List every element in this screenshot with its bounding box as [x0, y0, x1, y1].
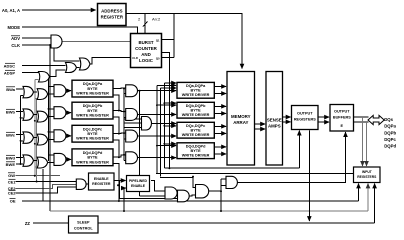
svg-text:A0, A1, A: A0, A1, A	[2, 8, 20, 13]
svg-text:DQc,DQPc: DQc,DQPc	[186, 124, 205, 128]
svg-text:ARRAY: ARRAY	[233, 120, 248, 125]
svg-text:ENABLE: ENABLE	[94, 177, 109, 181]
svg-text:CLR: CLR	[132, 56, 138, 60]
svg-text:OUTPUT: OUTPUT	[297, 112, 313, 116]
svg-text:WRITE REGISTER: WRITE REGISTER	[76, 160, 109, 164]
svg-text:BYTE: BYTE	[191, 149, 202, 153]
svg-text:LOGIC: LOGIC	[139, 58, 154, 63]
svg-text:BYTE: BYTE	[191, 129, 202, 133]
svg-text:WRITE DRIVER: WRITE DRIVER	[182, 113, 210, 117]
svg-text:DQc,DQPc: DQc,DQPc	[83, 127, 102, 131]
svg-text:OUTPUT: OUTPUT	[334, 110, 350, 114]
svg-text:BYTE: BYTE	[87, 109, 98, 113]
svg-text:REGISTER: REGISTER	[92, 182, 111, 186]
svg-text:CONTROL: CONTROL	[74, 227, 93, 231]
svg-text:DQs: DQs	[384, 117, 393, 122]
svg-text:WRITE REGISTER: WRITE REGISTER	[76, 92, 109, 96]
svg-text:AND: AND	[141, 52, 151, 57]
svg-text:INPUT: INPUT	[362, 170, 372, 174]
svg-text:BWc: BWc	[6, 132, 16, 137]
svg-text:COUNTER: COUNTER	[135, 46, 158, 51]
svg-text:SENSE: SENSE	[267, 118, 282, 123]
svg-text:BUFFERS: BUFFERS	[333, 116, 351, 120]
svg-text:AMPS: AMPS	[268, 124, 281, 129]
svg-text:BYTE: BYTE	[191, 109, 202, 113]
svg-text:DQd,DQPd: DQd,DQPd	[83, 151, 103, 155]
svg-text:BYTE: BYTE	[87, 87, 98, 91]
svg-text:ADSC: ADSC	[4, 63, 15, 68]
svg-text:E: E	[341, 124, 344, 128]
svg-text:BWE: BWE	[6, 162, 16, 167]
svg-text:ENABLE: ENABLE	[131, 184, 146, 188]
svg-text:WRITE DRIVER: WRITE DRIVER	[182, 93, 210, 97]
svg-text:REGISTERS: REGISTERS	[357, 175, 377, 179]
svg-text:DQd,DQPd: DQd,DQPd	[186, 145, 206, 149]
svg-text:An:2: An:2	[152, 17, 161, 22]
svg-text:BURST: BURST	[138, 40, 153, 45]
svg-text:MEMORY: MEMORY	[231, 114, 251, 119]
svg-text:REGISTER: REGISTER	[101, 15, 124, 20]
svg-text:GW: GW	[8, 173, 15, 178]
svg-text:DQPc: DQPc	[384, 137, 396, 142]
svg-text:DQa,DQPa: DQa,DQPa	[186, 84, 206, 88]
svg-text:BYTE: BYTE	[87, 156, 98, 160]
svg-text:Q1: Q1	[156, 38, 160, 42]
svg-text:DQPa: DQPa	[384, 124, 396, 129]
svg-text:DQPb: DQPb	[384, 130, 396, 135]
svg-text:DQPd: DQPd	[384, 144, 396, 149]
svg-text:BYTE: BYTE	[87, 132, 98, 136]
svg-text:OE: OE	[10, 198, 16, 203]
svg-text:SLEEP: SLEEP	[77, 221, 90, 225]
svg-text:ADSP: ADSP	[4, 70, 15, 75]
svg-text:BYTE: BYTE	[191, 89, 202, 93]
svg-text:BWa: BWa	[6, 87, 16, 92]
svg-text:CLK: CLK	[11, 43, 20, 48]
svg-text:WRITE DRIVER: WRITE DRIVER	[182, 154, 210, 158]
svg-text:WRITE REGISTER: WRITE REGISTER	[76, 114, 109, 118]
svg-text:MODE: MODE	[7, 25, 20, 30]
svg-text:CE1: CE1	[8, 179, 17, 184]
svg-text:BWd: BWd	[6, 155, 16, 160]
svg-text:Q0: Q0	[156, 56, 160, 60]
svg-text:2: 2	[138, 17, 141, 22]
svg-text:WRITE DRIVER: WRITE DRIVER	[182, 133, 210, 137]
svg-text:DQb,DQPb: DQb,DQPb	[186, 104, 206, 108]
svg-text:WRITE REGISTER: WRITE REGISTER	[76, 137, 109, 141]
svg-text:DQb,DQPb: DQb,DQPb	[83, 104, 103, 108]
svg-text:BWb: BWb	[6, 109, 16, 114]
svg-text:REGISTERS: REGISTERS	[294, 118, 316, 122]
svg-text:ADDRESS: ADDRESS	[101, 9, 123, 14]
svg-text:CE2: CE2	[8, 191, 17, 196]
svg-text:ADV: ADV	[11, 36, 20, 41]
svg-text:PIPELINED: PIPELINED	[129, 179, 147, 183]
svg-text:ZZ: ZZ	[25, 221, 31, 226]
svg-text:DQa,DQPa: DQa,DQPa	[83, 82, 103, 86]
